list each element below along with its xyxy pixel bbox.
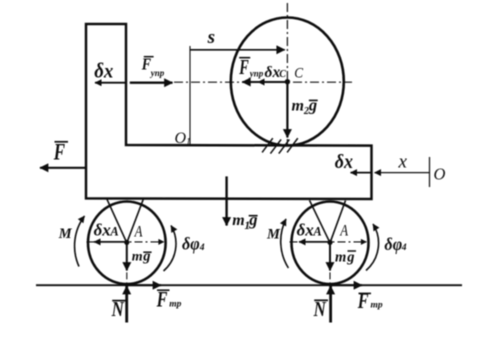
left friction F_tr arrow xyxy=(127,284,161,286)
svg-text:δφ: δφ xyxy=(182,234,200,254)
svg-text:g: g xyxy=(142,248,150,264)
x axis tick at O xyxy=(429,157,431,187)
weight m1g arrow xyxy=(225,176,227,225)
svg-text:A: A xyxy=(339,222,348,240)
svg-text:F: F xyxy=(53,140,65,165)
delta-x arrow at right edge xyxy=(351,172,372,174)
svg-text:g: g xyxy=(248,210,257,229)
right moment M arc arrow xyxy=(281,219,289,268)
svg-text:A: A xyxy=(134,223,143,241)
right friction F_tr arrow xyxy=(330,284,362,286)
left wheel xyxy=(88,202,166,285)
right wheel xyxy=(292,202,369,285)
spring force F_upr on cylinder (pointing left) xyxy=(242,81,287,83)
delta-xC arrow (cylinder center displacement) xyxy=(258,81,276,83)
svg-text:тр: тр xyxy=(169,299,181,309)
left moment M arc arrow xyxy=(75,216,85,267)
weight m2g arrow xyxy=(286,82,288,138)
O1 reference vertical line xyxy=(189,46,191,145)
svg-text:упр: упр xyxy=(249,68,264,78)
svg-text:F: F xyxy=(156,288,168,312)
applied force F arrow xyxy=(40,167,86,169)
left normal force N arrow xyxy=(125,286,128,323)
left delta-phi4 arc arrow xyxy=(164,226,176,272)
svg-text:A: A xyxy=(312,225,321,239)
left wheel weight mg arrow xyxy=(126,242,128,270)
left wheel vertical dash-dot to contact xyxy=(126,242,128,285)
right delta-xA arrow xyxy=(299,241,330,243)
right wheel fork lines xyxy=(310,200,331,243)
node C center dot xyxy=(285,79,290,84)
left wheel horizontal dash-dot with end arrow xyxy=(87,241,165,243)
left wheel fork lines xyxy=(107,199,127,243)
ground line xyxy=(36,284,462,286)
horizontal center dash-dot line through C xyxy=(174,81,352,83)
left wheel axle dot A xyxy=(124,240,129,245)
svg-text:m: m xyxy=(335,250,346,266)
svg-text:F: F xyxy=(141,55,151,73)
right delta-phi4 arc arrow xyxy=(366,224,379,271)
svg-text:m: m xyxy=(132,249,143,264)
cylinder m2 xyxy=(231,18,344,146)
right wheel horizontal dash-dot with end arrow xyxy=(290,241,367,243)
spring force F_upr on body (pointing right) xyxy=(130,81,173,83)
svg-text:C: C xyxy=(279,69,286,80)
svg-text:δx: δx xyxy=(335,151,354,173)
svg-text:g: g xyxy=(346,250,354,266)
svg-text:A: A xyxy=(109,225,118,239)
right wheel vertical dash-dot to contact xyxy=(329,242,331,285)
left delta-xA arrow xyxy=(94,241,127,243)
svg-text:m: m xyxy=(292,98,304,115)
svg-text:δφ: δφ xyxy=(384,234,402,254)
hatching at cylinder contact xyxy=(262,138,298,153)
svg-text:δx: δx xyxy=(265,64,281,81)
right wheel weight mg arrow xyxy=(329,242,331,270)
svg-text:тр: тр xyxy=(371,301,383,311)
svg-text:x: x xyxy=(398,152,408,173)
svg-text:F: F xyxy=(238,55,248,78)
svg-text:C: C xyxy=(294,65,303,82)
s dimension arrow xyxy=(191,49,285,51)
vertical dash-dot line through C xyxy=(286,3,288,146)
svg-text:δx: δx xyxy=(94,60,113,83)
svg-text:4: 4 xyxy=(401,243,407,253)
svg-text:s: s xyxy=(207,27,215,48)
svg-text:N: N xyxy=(111,299,125,322)
cart body L-shaped outline xyxy=(86,24,372,199)
svg-text:O: O xyxy=(175,130,187,147)
svg-text:1: 1 xyxy=(186,138,191,148)
svg-text:g: g xyxy=(308,96,317,115)
svg-text:M: M xyxy=(58,226,73,242)
x axis arrow pointing left xyxy=(375,172,430,174)
svg-text:N: N xyxy=(313,298,327,321)
svg-text:4: 4 xyxy=(199,243,205,253)
delta-x arrow in tower (body displacement) xyxy=(95,82,126,84)
svg-text:m: m xyxy=(232,212,244,229)
right normal force N arrow xyxy=(329,286,332,323)
right wheel axle dot A xyxy=(327,240,332,245)
svg-text:δx: δx xyxy=(94,220,112,239)
svg-text:M: M xyxy=(266,227,281,243)
svg-text:O: O xyxy=(434,164,446,183)
svg-text:упр: упр xyxy=(150,68,165,78)
svg-text:δx: δx xyxy=(297,220,315,239)
